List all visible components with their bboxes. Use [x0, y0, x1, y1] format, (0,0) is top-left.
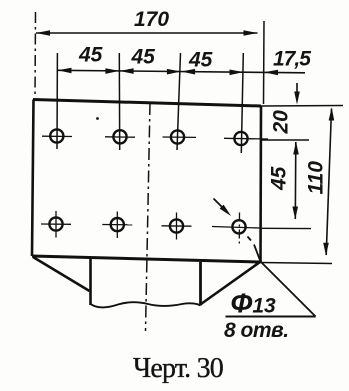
extension line hole column 1 — [56, 53, 58, 149]
chain dimension line 45/45/45/17,5 — [58, 70, 306, 73]
leader overshoot dash above hole R2C4 — [214, 199, 228, 213]
vertical dash-dot centerline — [146, 103, 151, 331]
hole R2C2 — [102, 212, 132, 239]
bottom edge extension line right — [261, 263, 333, 264]
arrowhead 170 left — [36, 30, 50, 36]
speck dot — [96, 117, 99, 120]
svg-text:8 отв.: 8 отв. — [224, 319, 289, 342]
arrowhead 45v bottom — [292, 207, 298, 220]
extension line hole column 4 — [241, 53, 243, 153]
top edge extension line to the right — [261, 105, 343, 108]
stem left edge — [89, 259, 92, 306]
leader dash below hole — [248, 237, 252, 241]
arrowhead 110 bottom — [323, 243, 329, 256]
leader line to shelf — [254, 245, 316, 317]
hole row 1 extension line right — [262, 139, 309, 141]
left gusset diagonal — [33, 257, 90, 291]
extension line hole column 2 — [118, 53, 120, 150]
arrowhead 170 right — [244, 30, 258, 36]
svg-text:170: 170 — [134, 8, 169, 31]
svg-text:45: 45 — [188, 49, 213, 72]
arrowhead chain at col3 pointing right — [167, 69, 181, 75]
plate right edge — [259, 106, 262, 262]
leader arrowhead pointing at hole R2C4 — [220, 205, 231, 216]
20 outside arrow above top edge — [296, 83, 298, 96]
plate left edge — [32, 100, 34, 257]
right extension line for 170 and 17,5 — [263, 21, 266, 104]
arrowhead chain at col1 pointing left — [58, 68, 72, 74]
hole R1C3 — [163, 130, 197, 143]
arrowhead 110 top — [329, 108, 335, 121]
hole R1C4 — [224, 132, 268, 145]
extension line hole column 3 — [177, 53, 181, 150]
arrowhead 17,5 pointing left at plate edge line — [264, 70, 278, 76]
left dash-dot extension line for 170 — [34, 12, 37, 98]
hole R1C2 — [105, 130, 135, 143]
arrowhead chain at col4 pointing right — [230, 70, 244, 76]
hole R2C1 — [41, 211, 71, 238]
svg-text:20: 20 — [270, 110, 293, 135]
hole R1C1 — [42, 129, 72, 142]
arrowhead chain at col3 pointing left — [181, 69, 195, 75]
arrowhead chain at col2 pointing left — [120, 68, 134, 74]
hole R2C3 — [162, 213, 192, 240]
svg-text:110: 110 — [305, 161, 328, 195]
svg-text:45: 45 — [131, 46, 156, 69]
plate bottom edge — [32, 256, 261, 262]
svg-text:17,5: 17,5 — [273, 48, 311, 71]
hole row 2 extension line right — [262, 227, 311, 229]
arrowhead 45v top — [293, 142, 299, 155]
svg-text:45: 45 — [268, 166, 291, 191]
plate top edge — [33, 100, 261, 107]
svg-text:Черт. 30: Черт. 30 — [133, 353, 223, 384]
stem break wavy line — [91, 302, 201, 307]
leader shelf underline — [226, 316, 316, 318]
svg-text:45: 45 — [78, 44, 103, 67]
dimension line 110 vertical — [326, 109, 331, 256]
dimension line 45 vertical — [294, 142, 297, 219]
stem right edge — [199, 262, 202, 306]
dimension line 170 — [36, 32, 258, 34]
hole R2C4 — [212, 213, 260, 244]
right gusset diagonal — [201, 262, 260, 304]
arrowhead chain at col2 pointing right — [105, 68, 119, 74]
